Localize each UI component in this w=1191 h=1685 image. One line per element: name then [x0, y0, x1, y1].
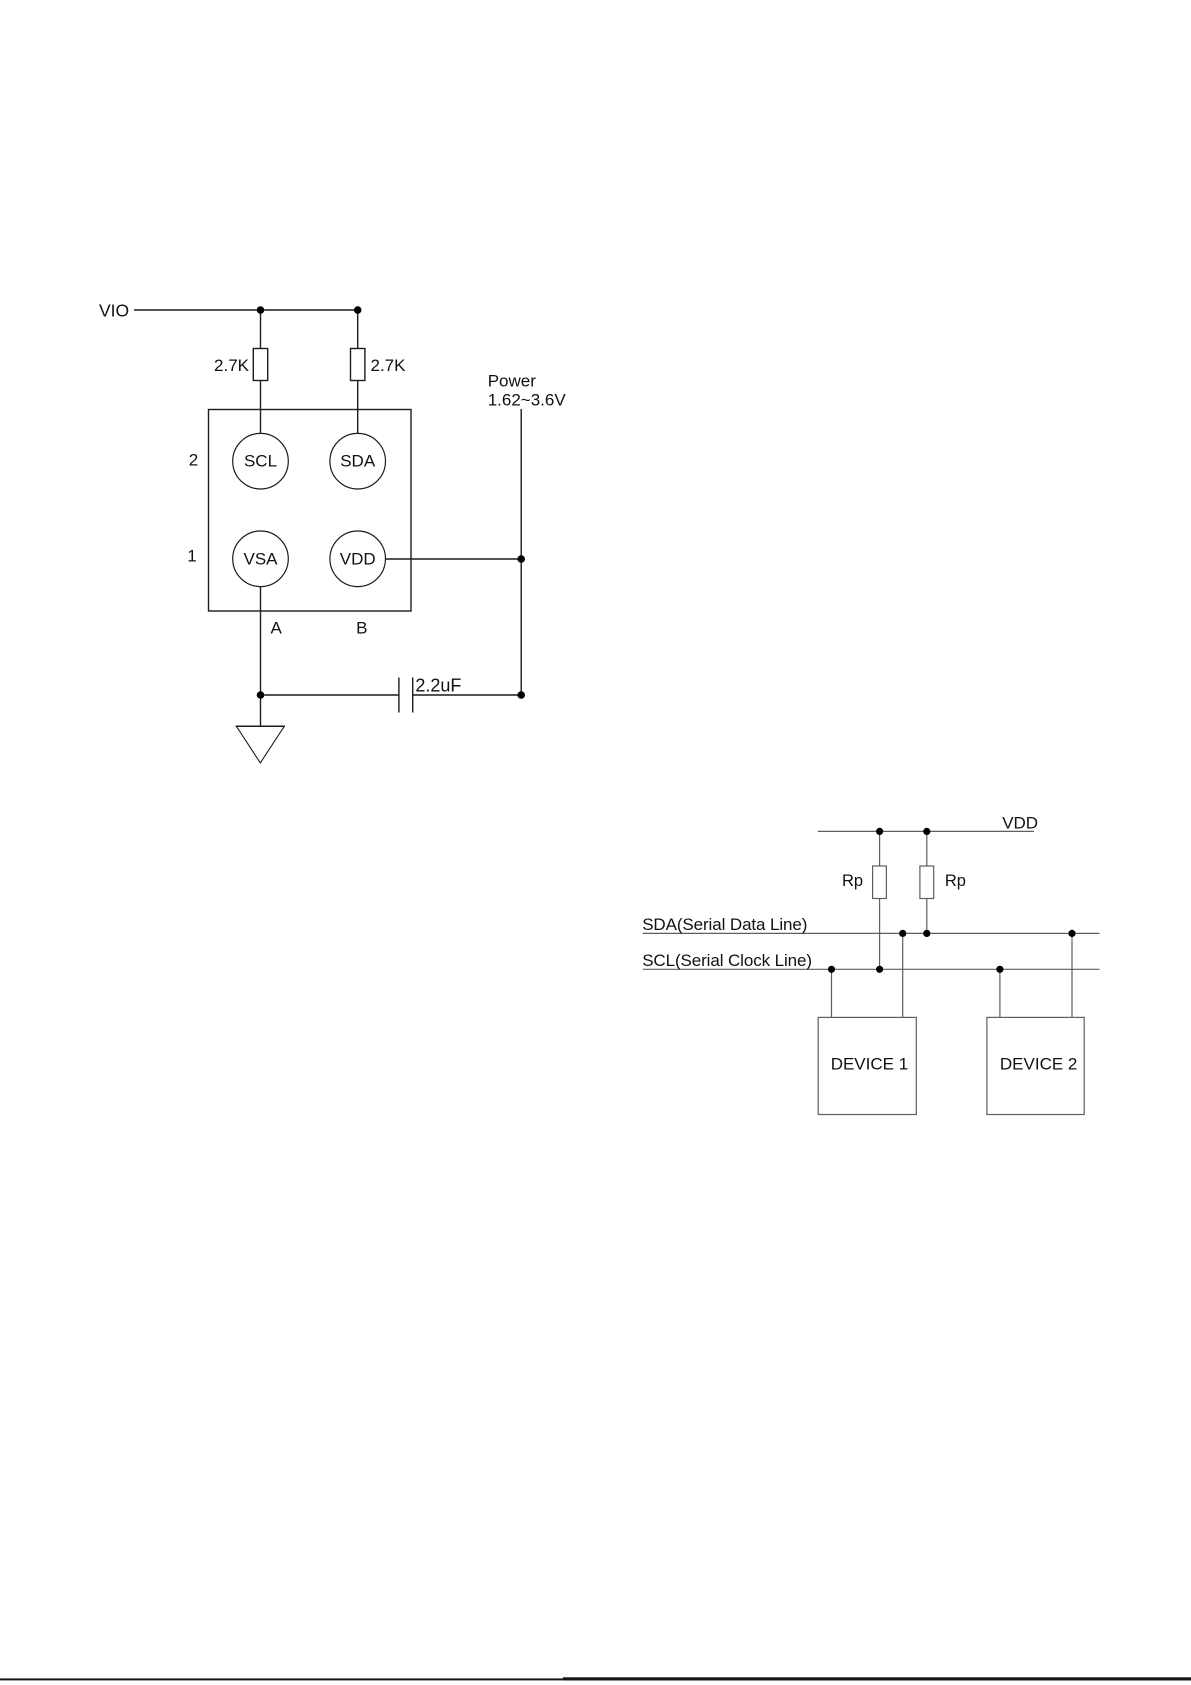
svg-text:2.7K: 2.7K — [214, 356, 250, 375]
svg-text:Rp: Rp — [842, 872, 863, 890]
svg-text:DEVICE 2: DEVICE 2 — [1000, 1055, 1077, 1074]
svg-text:VIO: VIO — [99, 301, 129, 321]
svg-text:A: A — [271, 619, 283, 638]
svg-text:VDD: VDD — [1002, 814, 1038, 833]
svg-text:SCL(Serial Clock Line): SCL(Serial Clock Line) — [642, 951, 812, 970]
svg-text:B: B — [356, 619, 367, 638]
svg-text:VSA: VSA — [243, 549, 278, 568]
svg-text:DEVICE 1: DEVICE 1 — [831, 1055, 908, 1074]
svg-text:Power: Power — [488, 371, 537, 390]
svg-text:VDD: VDD — [340, 549, 376, 568]
svg-text:SDA: SDA — [340, 452, 376, 471]
svg-text:SDA(Serial Data Line): SDA(Serial Data Line) — [642, 915, 807, 934]
svg-text:2.2uF: 2.2uF — [415, 675, 461, 695]
svg-text:Rp: Rp — [945, 872, 966, 890]
svg-text:1: 1 — [187, 547, 196, 566]
svg-text:SCL: SCL — [244, 452, 277, 471]
svg-text:2.7K: 2.7K — [371, 356, 407, 375]
svg-text:1.62~3.6V: 1.62~3.6V — [488, 390, 567, 409]
svg-text:2: 2 — [189, 451, 198, 470]
